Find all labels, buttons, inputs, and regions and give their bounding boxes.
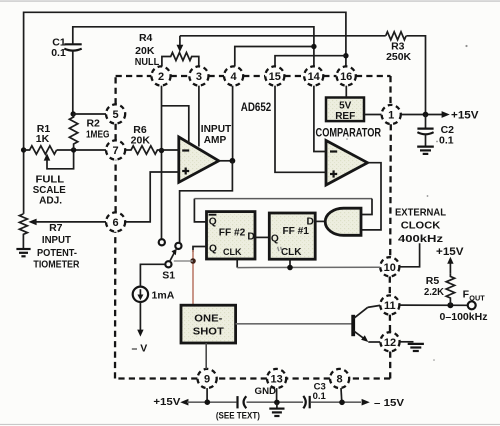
node GND junction — [274, 400, 280, 406]
flip-flop FF #1 — [269, 213, 315, 259]
scan speckles — [346, 45, 467, 361]
pin 2 — [151, 66, 170, 85]
svg-text:10: 10 — [384, 262, 396, 274]
switch S1 contact A — [159, 239, 165, 245]
wire FF1 CLK down to clock bus — [289, 259, 291, 267]
wire pin6 to amp plus — [125, 172, 179, 222]
5V REF box — [326, 98, 364, 123]
resistor R1 1K (pot) — [24, 123, 74, 206]
pin 10 — [380, 257, 399, 276]
wire left outer rail — [24, 12, 346, 214]
wire pin4 top to pin14 column — [235, 47, 314, 67]
svg-text:3: 3 — [196, 71, 202, 83]
switch S1 common contact — [165, 261, 171, 267]
svg-text:0.1: 0.1 — [51, 47, 66, 59]
wire rail segment 2 — [247, 401, 304, 403]
svg-text:+15V: +15V — [153, 396, 180, 408]
label Fout — [463, 289, 486, 303]
svg-text:– V: – V — [132, 343, 148, 355]
wire FF2 D to FF1 Q — [255, 236, 269, 238]
svg-text:INPUT: INPUT — [201, 124, 232, 135]
wire pin10 to external clock input — [399, 243, 419, 267]
wire rail segment 1 — [187, 401, 236, 403]
wire pin15 to pin16 column — [275, 56, 346, 67]
resistor R3 250K — [386, 32, 412, 63]
label EXTERNAL CLOCK 400kHz — [395, 206, 447, 245]
wire R3 to +15V node — [406, 36, 425, 115]
pin 5 — [106, 104, 125, 123]
svg-text:6: 6 — [113, 217, 119, 229]
pin 11 — [380, 295, 399, 314]
pin 1 — [382, 105, 401, 124]
svg-text:5V: 5V — [339, 101, 352, 112]
svg-text:20K: 20K — [131, 135, 151, 147]
svg-text:0.1: 0.1 — [439, 135, 454, 147]
node amp output — [230, 158, 236, 164]
pin 9 — [198, 369, 217, 388]
pin 14 — [304, 66, 323, 85]
pin 7 — [106, 140, 125, 159]
svg-text:15: 15 — [269, 71, 281, 83]
wire one-shot to pin 9 — [205, 343, 207, 369]
pin 13 — [267, 369, 286, 388]
node R1 left on rail — [21, 147, 26, 152]
arrow +15V left — [180, 399, 188, 406]
transistor Q1 — [353, 305, 380, 342]
svg-text:400kHz: 400kHz — [398, 233, 443, 245]
op-amp U1 INPUT AMP — [179, 124, 231, 182]
wire C1 node to pin5 — [73, 113, 106, 115]
wire pin13 down to rail — [276, 388, 278, 402]
svg-text:9: 9 — [204, 374, 210, 386]
svg-text:1K: 1K — [36, 133, 50, 145]
svg-text:+15V: +15V — [436, 246, 464, 258]
wire pin8 down to rail — [340, 388, 343, 402]
wire pin3 into amp top — [198, 86, 200, 147]
ground below R7 — [16, 249, 30, 256]
wire R4 wiper null line — [180, 35, 386, 37]
switch S1 contact B — [175, 243, 181, 249]
potentiometer R7 INPUT POTENTIOMETER — [19, 214, 79, 270]
svg-text:INPUT: INPUT — [42, 234, 72, 246]
wire AND output to FF1 D — [315, 220, 326, 222]
svg-text:CLK: CLK — [223, 247, 242, 257]
wire FF2 CLK down to clock bus — [236, 259, 238, 268]
svg-text:R7: R7 — [49, 222, 63, 234]
svg-text:– 15V: – 15V — [374, 397, 404, 409]
op-amp comparator — [316, 127, 382, 185]
svg-text:Q: Q — [209, 244, 217, 255]
svg-text:D: D — [247, 232, 254, 243]
svg-text:CLOCK: CLOCK — [401, 220, 441, 232]
capacitor C3 0.1 — [303, 381, 326, 408]
svg-text:(SEE TEXT): (SEE TEXT) — [216, 410, 260, 420]
svg-text:13: 13 — [270, 374, 282, 386]
potentiometer R4 20K NULL — [135, 32, 199, 68]
svg-text:0.1: 0.1 — [313, 391, 327, 402]
svg-text:5: 5 — [113, 109, 119, 121]
svg-text:AD652: AD652 — [241, 100, 272, 114]
pin 12 — [380, 332, 399, 351]
wire pin16 to 5V REF top — [345, 86, 347, 98]
wire pin2 column down to switch — [161, 86, 163, 240]
node below pin8 — [339, 400, 345, 406]
svg-text:11: 11 — [384, 300, 396, 312]
svg-text:14: 14 — [308, 71, 321, 83]
node R1/R2 junction — [71, 147, 76, 152]
svg-text:Q: Q — [209, 216, 217, 227]
svg-text:OUT: OUT — [469, 293, 485, 302]
svg-text:Q: Q — [271, 233, 279, 244]
node FF2 Q / one-shot — [190, 258, 196, 264]
wire stub from switch arm to node — [174, 260, 193, 262]
svg-text:POTENT-: POTENT- — [37, 247, 77, 259]
wire rail segment 3 — [311, 401, 361, 403]
wire amp output feedback to switch B — [180, 161, 233, 243]
svg-text:7: 7 — [113, 145, 119, 157]
svg-text:NULL: NULL — [135, 56, 160, 68]
svg-text:+15V: +15V — [451, 110, 479, 122]
wire pin6 to R7 wiper — [34, 221, 106, 223]
flip-flop FF #2 — [207, 212, 256, 259]
pin 4 — [224, 66, 243, 85]
node below pin9 — [205, 399, 211, 405]
pin 6 — [106, 212, 125, 231]
svg-text:ADJ.: ADJ. — [39, 194, 62, 206]
AD652 IC dashed outline — [115, 76, 391, 379]
svg-text:FF #1: FF #1 — [282, 226, 309, 237]
pin 15 — [265, 66, 284, 85]
wire one-shot to transistor base — [236, 323, 352, 325]
node +15V junction — [423, 112, 429, 118]
wire R1 to pin7 — [57, 149, 106, 151]
capacitor C1 — [51, 36, 82, 59]
node FF1 CLK on bus — [287, 265, 293, 271]
resistor R6 20K — [125, 124, 179, 154]
current source 1mA — [133, 287, 175, 302]
wire C1 bottom to R2/pin5 node — [72, 50, 74, 114]
svg-text:EXTERNAL: EXTERNAL — [395, 206, 447, 218]
node R5/Fout — [447, 302, 453, 308]
pin 3 — [189, 66, 208, 85]
svg-text:1MEG: 1MEG — [86, 129, 110, 141]
svg-text:REF: REF — [335, 111, 355, 122]
capacitor bypass (see text) — [238, 396, 247, 408]
wire pin2 branch into amp top — [162, 106, 189, 143]
wire switch common to 1mA — [140, 264, 165, 286]
wire FF2 Q down to one-shot — [193, 247, 207, 253]
pin 16 — [337, 66, 356, 85]
wire 1mA to -V arrow — [139, 302, 141, 330]
svg-text:S1: S1 — [162, 270, 175, 282]
svg-text:COMPARATOR: COMPARATOR — [316, 127, 382, 139]
svg-text:TIOMETER: TIOMETER — [33, 258, 79, 270]
svg-text:ONE-: ONE- — [194, 313, 223, 325]
svg-text:1: 1 — [388, 110, 394, 122]
ground below GND node — [269, 402, 284, 416]
node junction pin16 column — [343, 53, 348, 58]
switch S1 arm — [162, 249, 176, 282]
svg-text:2.2K: 2.2K — [424, 286, 444, 298]
one-shot box — [181, 305, 236, 343]
ground at pin12 — [408, 344, 424, 351]
arrow -15V right — [362, 399, 370, 406]
arrow +15V right — [442, 111, 450, 118]
wire comparator output to AND gate lower input — [361, 163, 381, 230]
wire pin12 to ground — [400, 341, 414, 343]
svg-text:CLK: CLK — [281, 247, 302, 258]
svg-text:250K: 250K — [386, 51, 411, 63]
wire amp output to pin4 — [219, 160, 233, 162]
node junction pin14 column — [311, 44, 316, 49]
AND gate (mirrored) — [325, 208, 361, 235]
svg-text:16: 16 — [340, 71, 352, 83]
wire pin1 to +15V arrow — [401, 114, 442, 116]
svg-text:R4: R4 — [139, 32, 153, 44]
pin 8 — [330, 369, 349, 388]
wire C1 top to pins 4,14 — [73, 27, 314, 67]
svg-text:GND: GND — [255, 386, 277, 397]
ground below C2 — [417, 147, 434, 154]
resistor R5 2.2K — [424, 246, 464, 305]
wire pin15 to comparator plus — [275, 86, 326, 173]
node amp minus input — [159, 148, 164, 153]
svg-text:1mA: 1mA — [152, 289, 175, 301]
capacitor C2 — [417, 115, 454, 147]
svg-text:R2: R2 — [86, 117, 100, 129]
node C1/R2/pin5 — [71, 111, 76, 116]
svg-text:SHOT: SHOT — [193, 326, 225, 338]
wire clock bus to pin 10 — [237, 266, 380, 268]
svg-text:12: 12 — [384, 337, 396, 349]
svg-text:4: 4 — [231, 71, 238, 83]
svg-text:AMP: AMP — [204, 135, 227, 146]
svg-text:0–100kHz: 0–100kHz — [440, 311, 488, 323]
svg-text:2: 2 — [158, 71, 164, 83]
wire FF2 Qbar to AND gate upper input — [194, 199, 206, 222]
wire pin11 to Fout — [399, 304, 467, 306]
terminal Fout — [468, 301, 476, 309]
wire 5V REF to pin1 — [364, 114, 382, 116]
resistor R2 1MEG — [69, 114, 109, 150]
wire pin14 to comparator minus — [314, 86, 326, 152]
svg-text:8: 8 — [337, 374, 343, 386]
svg-text:FF #2: FF #2 — [219, 227, 246, 238]
wire pin9 down to rail — [206, 388, 208, 402]
